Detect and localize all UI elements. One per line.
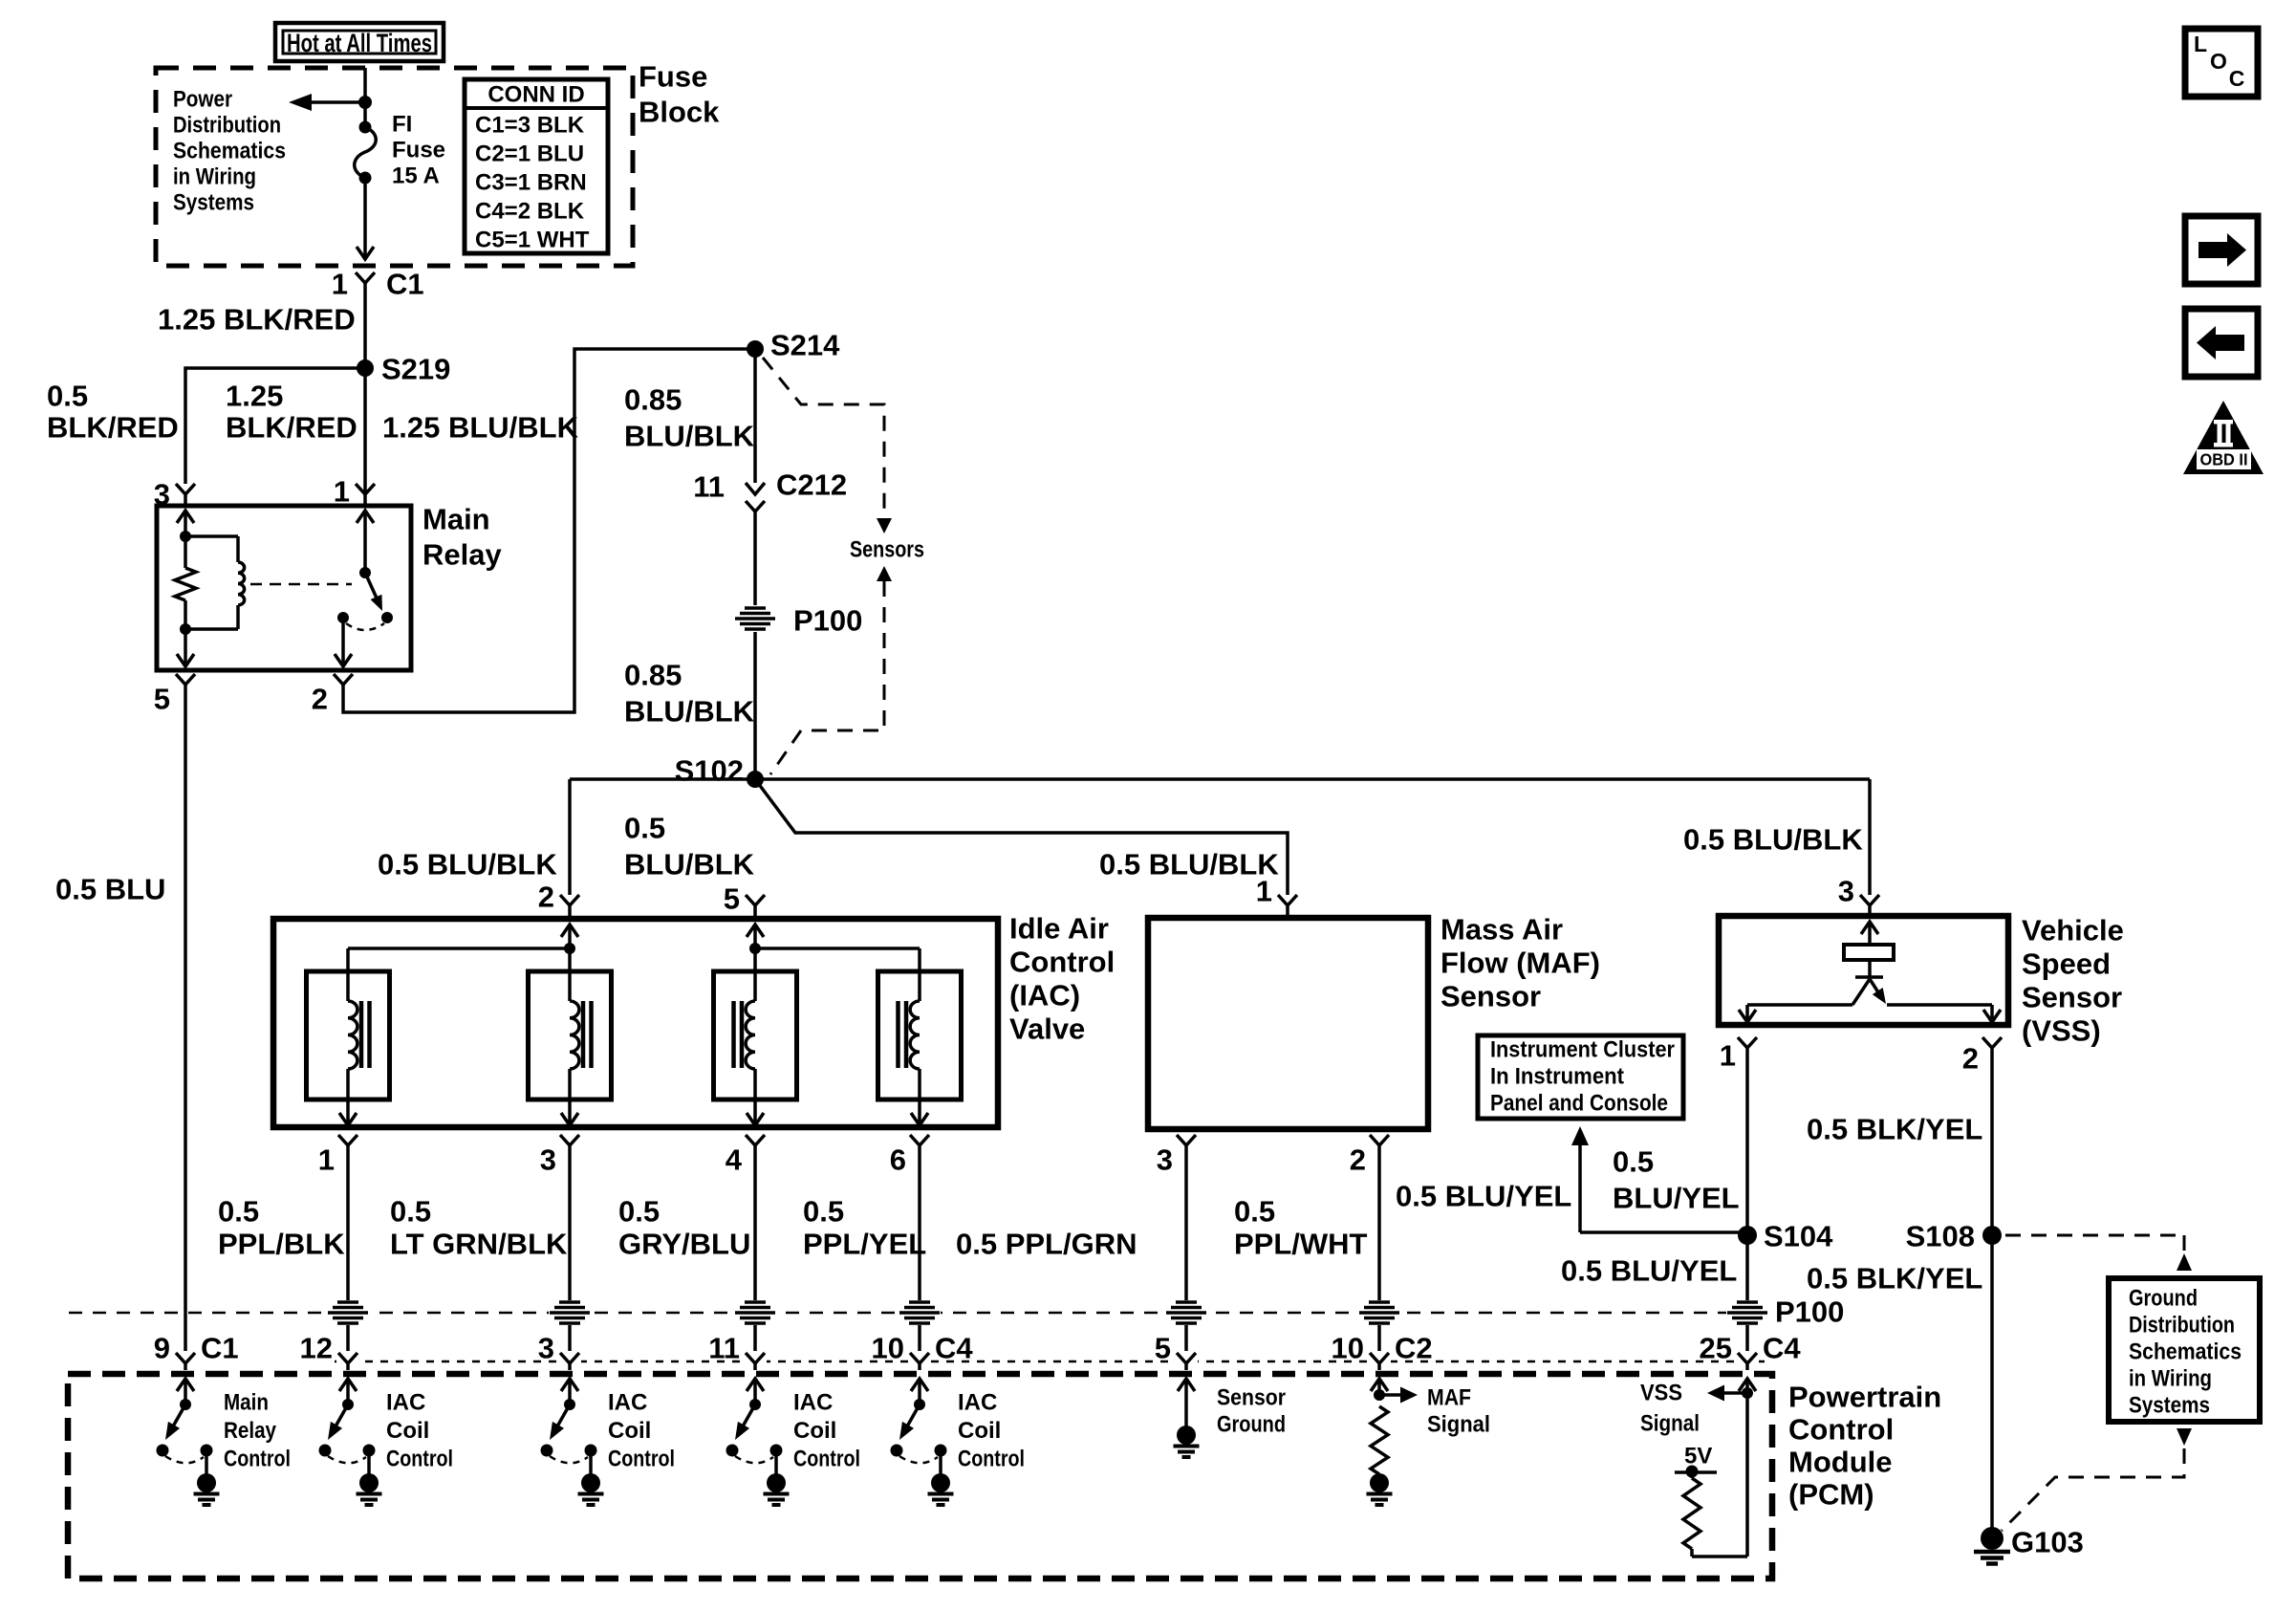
connector MAF pin 2 xyxy=(1350,1135,1389,1177)
connector PCM pin 10 C4 xyxy=(872,1332,974,1371)
wire to instrument cluster with arrow xyxy=(1571,1126,1747,1232)
svg-text:1.25 BLK/RED: 1.25 BLK/RED xyxy=(158,303,356,337)
svg-text:PPL/BLK: PPL/BLK xyxy=(218,1228,345,1261)
svg-text:Signal: Signal xyxy=(1640,1411,1700,1437)
PCM connector face dashed line xyxy=(335,1361,1768,1363)
svg-text:S102: S102 xyxy=(675,754,744,788)
svg-text:Coil: Coil xyxy=(793,1418,836,1444)
svg-text:0.5: 0.5 xyxy=(618,1195,660,1229)
svg-text:Sensor: Sensor xyxy=(1217,1385,1286,1411)
IAC valve box xyxy=(273,919,998,1127)
connector PCM pin 5 xyxy=(1155,1332,1198,1371)
connector relay pin 5 xyxy=(154,674,195,716)
connector IAC pin 3 xyxy=(540,1135,579,1177)
connector PCM pin 10 C2 xyxy=(1332,1332,1433,1371)
wire S214 down xyxy=(753,349,757,483)
label Ground Distribution box xyxy=(2109,1278,2260,1422)
connector PCM pin 11 xyxy=(708,1332,767,1371)
svg-text:P100: P100 xyxy=(1775,1295,1844,1329)
connector relay pin 2 xyxy=(312,674,353,716)
connector PCM pin 12 xyxy=(300,1332,359,1371)
wire IAC pin6 to PCM xyxy=(918,1145,921,1355)
svg-text:0.5 BLU: 0.5 BLU xyxy=(55,873,165,906)
svg-text:C: C xyxy=(2229,66,2245,91)
connector MAF pin 1 xyxy=(1256,875,1297,919)
svg-text:2: 2 xyxy=(312,683,328,716)
pass-through grommet x=364 xyxy=(327,1300,369,1325)
PCM sensor ground xyxy=(1174,1379,1287,1457)
svg-text:Relay: Relay xyxy=(224,1418,277,1444)
svg-text:BLK/RED: BLK/RED xyxy=(47,411,179,445)
svg-text:3: 3 xyxy=(1157,1143,1173,1177)
svg-text:Ground: Ground xyxy=(1217,1412,1286,1438)
svg-text:C4: C4 xyxy=(935,1332,973,1365)
svg-text:Sensor: Sensor xyxy=(2022,981,2122,1014)
svg-text:1: 1 xyxy=(1720,1039,1736,1073)
svg-text:Vehicle: Vehicle xyxy=(2022,914,2124,947)
svg-text:IAC: IAC xyxy=(608,1390,647,1416)
svg-text:BLU/BLK: BLU/BLK xyxy=(624,848,755,882)
wire S219 branch left xyxy=(185,368,365,484)
svg-text:BLU/BLK: BLU/BLK xyxy=(624,695,755,729)
connector IAC pin 1 xyxy=(318,1135,357,1177)
svg-text:5: 5 xyxy=(154,683,170,716)
svg-text:5: 5 xyxy=(1155,1332,1171,1365)
IAC coil winding 3 xyxy=(714,948,797,1125)
svg-text:0.5: 0.5 xyxy=(803,1195,844,1229)
svg-text:0.5 BLK/YEL: 0.5 BLK/YEL xyxy=(1807,1262,1982,1295)
pass-through grommet x=1443 xyxy=(1358,1300,1400,1325)
PCM driver switch at x=596 xyxy=(541,1379,604,1505)
connector C212 pin 11 xyxy=(693,468,847,606)
svg-text:5: 5 xyxy=(724,882,740,916)
svg-text:S219: S219 xyxy=(381,353,450,386)
svg-text:0.5: 0.5 xyxy=(1613,1145,1654,1179)
svg-text:in Wiring: in Wiring xyxy=(173,164,256,190)
wire MAF pin3 to PCM xyxy=(1184,1145,1188,1355)
svg-text:Panel and Console: Panel and Console xyxy=(1490,1091,1668,1117)
svg-text:Signal: Signal xyxy=(1427,1412,1490,1438)
connector MAF pin 3 xyxy=(1157,1135,1196,1177)
connector IAC pin 6 xyxy=(890,1135,929,1177)
wire IAC pin1 to PCM xyxy=(346,1145,350,1355)
svg-text:Main: Main xyxy=(224,1390,269,1416)
svg-text:Flow (MAF): Flow (MAF) xyxy=(1440,947,1600,980)
svg-text:IAC: IAC xyxy=(793,1390,833,1416)
wire MAF pin2 to PCM xyxy=(1377,1145,1381,1355)
svg-text:Systems: Systems xyxy=(2129,1393,2210,1419)
svg-text:C2: C2 xyxy=(1395,1332,1433,1365)
svg-text:In Instrument: In Instrument xyxy=(1490,1064,1624,1090)
splice S104 xyxy=(1738,1220,1833,1253)
svg-text:C212: C212 xyxy=(776,468,847,502)
svg-text:15 A: 15 A xyxy=(392,163,440,189)
icon OBD II xyxy=(2183,401,2264,474)
svg-text:25: 25 xyxy=(1700,1332,1732,1365)
svg-text:C1: C1 xyxy=(386,268,424,301)
svg-text:(PCM): (PCM) xyxy=(1788,1478,1874,1512)
svg-text:O: O xyxy=(2210,49,2227,74)
connector IAC pin 4 xyxy=(726,1135,765,1177)
svg-text:S214: S214 xyxy=(770,329,840,362)
PCM dashed box xyxy=(68,1374,1772,1578)
PCM driver switch at x=364 xyxy=(319,1379,382,1505)
svg-text:C1=3 BLK: C1=3 BLK xyxy=(475,113,585,139)
svg-text:C5=1 WHT: C5=1 WHT xyxy=(475,228,590,253)
IAC coil winding 2 xyxy=(529,948,612,1125)
svg-text:Mass Air: Mass Air xyxy=(1440,913,1563,947)
pass-through P100 xyxy=(735,604,862,638)
svg-text:BLU/YEL: BLU/YEL xyxy=(1613,1182,1740,1215)
wire branch to MAF pin 1 xyxy=(755,779,1288,895)
label 0.5 BLU/BLK xyxy=(624,812,755,882)
connector PCM pin 25 C4 xyxy=(1700,1332,1802,1371)
connector C1 pin 1 xyxy=(332,268,424,301)
label IAC Coil Control xyxy=(793,1390,860,1472)
svg-text:0.5 BLU/YEL: 0.5 BLU/YEL xyxy=(1561,1254,1737,1288)
svg-text:GRY/BLU: GRY/BLU xyxy=(618,1228,750,1261)
svg-text:11: 11 xyxy=(708,1332,740,1365)
svg-text:Sensors: Sensors xyxy=(850,537,924,563)
IAC coil winding 4 xyxy=(878,948,962,1125)
ground G103 xyxy=(1974,1526,2084,1564)
svg-text:11: 11 xyxy=(693,470,725,504)
label Hot at All Times xyxy=(275,23,444,61)
connector IAC pin 2 xyxy=(538,881,579,920)
label 0.85 BLU/BLK xyxy=(624,659,755,729)
svg-text:Distribution: Distribution xyxy=(173,113,281,139)
svg-text:1: 1 xyxy=(332,268,348,301)
wire P100 to S102 xyxy=(753,632,757,779)
relay coil circuit xyxy=(175,511,245,666)
wire branch to IAC pin 2 xyxy=(568,779,572,895)
arrow to power distribution xyxy=(289,94,365,111)
svg-text:Sensor: Sensor xyxy=(1440,980,1541,1013)
svg-text:C2=1 BLU: C2=1 BLU xyxy=(475,142,584,167)
relay actuation dashed link xyxy=(250,583,352,586)
label Mass Air Flow (MAF) Sensor xyxy=(1440,913,1600,1013)
svg-text:1.25 BLU/BLK: 1.25 BLU/BLK xyxy=(382,411,579,445)
svg-text:C3=1 BRN: C3=1 BRN xyxy=(475,170,587,196)
svg-text:Coil: Coil xyxy=(386,1418,429,1444)
svg-text:2: 2 xyxy=(1962,1042,1979,1076)
label FI Fuse 15A xyxy=(392,112,445,189)
wire IAC pin3 to PCM xyxy=(568,1145,572,1355)
PCM MAF signal input xyxy=(1367,1379,1491,1505)
svg-text:LT GRN/BLK: LT GRN/BLK xyxy=(390,1228,568,1261)
splice S102 xyxy=(675,754,764,789)
wire VSS pin2 to G103 0.5 BLK/YEL xyxy=(1990,1048,1994,1536)
wire fuse to C1 xyxy=(363,178,367,256)
svg-text:1: 1 xyxy=(334,475,350,509)
label 0.5 PPL/YEL xyxy=(803,1195,926,1261)
svg-text:Relay: Relay xyxy=(422,538,502,572)
connector IAC pin 5 xyxy=(724,882,765,920)
label Main Relay Control xyxy=(224,1390,291,1472)
svg-text:0.5 PPL/GRN: 0.5 PPL/GRN xyxy=(956,1228,1137,1261)
svg-text:Hot at All Times: Hot at All Times xyxy=(287,29,432,57)
svg-text:Distribution: Distribution xyxy=(2129,1313,2235,1339)
dashed link Sensors to S102 xyxy=(770,566,892,774)
PCM driver switch at x=194 xyxy=(157,1379,220,1505)
svg-text:3: 3 xyxy=(1838,875,1854,908)
wire relay pin5 to PCM 0.5 BLU xyxy=(184,685,187,1355)
wire branch to VSS pin 3 xyxy=(1868,779,1872,895)
svg-text:0.5: 0.5 xyxy=(47,380,88,413)
label 0.5 BLK/RED xyxy=(47,380,179,445)
svg-text:G103: G103 xyxy=(2011,1526,2084,1559)
pass-through grommet x=596 xyxy=(549,1300,591,1325)
wire hot feed into fuse xyxy=(363,68,367,125)
label Idle Air Control (IAC) Valve xyxy=(1009,912,1115,1046)
splice S214 xyxy=(747,329,840,362)
svg-text:0.5 BLU/YEL: 0.5 BLU/YEL xyxy=(1396,1180,1571,1213)
svg-text:5V: 5V xyxy=(1684,1444,1712,1469)
svg-text:CONN ID: CONN ID xyxy=(487,82,584,108)
wire relay pin2 to S214 xyxy=(343,349,755,712)
svg-text:S104: S104 xyxy=(1764,1220,1833,1253)
PCM driver switch at x=962 xyxy=(891,1379,954,1505)
bulkhead dashed line xyxy=(69,1312,1726,1315)
label Powertrain Control Module (PCM) xyxy=(1788,1381,1941,1512)
PCM VSS signal input xyxy=(1640,1379,1756,1557)
svg-text:12: 12 xyxy=(300,1332,333,1365)
svg-text:Schematics: Schematics xyxy=(2129,1339,2242,1365)
icon arrow left xyxy=(2185,309,2258,377)
svg-text:Block: Block xyxy=(639,96,720,129)
svg-text:1: 1 xyxy=(1256,875,1272,908)
svg-text:Idle Air: Idle Air xyxy=(1009,912,1109,946)
svg-text:Control: Control xyxy=(386,1447,453,1472)
label IAC Coil Control xyxy=(958,1390,1025,1472)
splice S219 xyxy=(357,353,450,386)
label Instrument Cluster box xyxy=(1478,1035,1683,1119)
svg-text:0.5 BLU/BLK: 0.5 BLU/BLK xyxy=(1099,848,1279,882)
connector VSS pin 2 xyxy=(1962,1037,2002,1076)
svg-text:Main: Main xyxy=(422,503,490,536)
svg-text:Systems: Systems xyxy=(173,190,254,216)
svg-text:0.5: 0.5 xyxy=(390,1195,431,1229)
label IAC Coil Control xyxy=(608,1390,675,1472)
svg-text:0.85: 0.85 xyxy=(624,659,682,692)
wire S102 distribution bus xyxy=(570,777,1870,781)
label 1.25 BLK/RED xyxy=(226,380,357,445)
svg-text:Control: Control xyxy=(1788,1413,1894,1447)
svg-text:0.85: 0.85 xyxy=(624,383,682,417)
label IAC Coil Control xyxy=(386,1390,453,1472)
label Fuse Block xyxy=(639,60,720,129)
pass-through grommet x=1241 xyxy=(1165,1300,1207,1325)
note Power Distribution Schematics in Wiring Systems xyxy=(173,87,286,216)
label 0.5 PPL/WHT xyxy=(1234,1195,1368,1261)
svg-text:3: 3 xyxy=(538,1332,554,1365)
PCM driver switch at x=790 xyxy=(726,1379,790,1505)
svg-text:3: 3 xyxy=(540,1143,556,1177)
svg-text:Powertrain: Powertrain xyxy=(1788,1381,1941,1414)
wire C1 to S219 1.25 BLK/RED xyxy=(363,283,367,494)
svg-text:Control: Control xyxy=(958,1447,1025,1472)
connector VSS pin 1 xyxy=(1720,1037,1757,1073)
label 0.5 PPL/BLK xyxy=(218,1195,345,1261)
IAC internal feed wires xyxy=(348,925,920,954)
relay box xyxy=(157,506,411,670)
svg-text:Fuse: Fuse xyxy=(639,60,707,94)
svg-text:0.5 BLU/BLK: 0.5 BLU/BLK xyxy=(1683,823,1863,857)
svg-text:4: 4 xyxy=(726,1143,743,1177)
svg-text:Control: Control xyxy=(793,1447,860,1472)
CONN ID table xyxy=(465,79,608,253)
svg-text:VSS: VSS xyxy=(1640,1381,1682,1406)
svg-text:2: 2 xyxy=(1350,1143,1366,1177)
svg-text:0.5: 0.5 xyxy=(218,1195,259,1229)
svg-text:Module: Module xyxy=(1788,1446,1893,1479)
svg-text:Valve: Valve xyxy=(1009,1012,1085,1046)
svg-text:C1: C1 xyxy=(201,1332,239,1365)
fuse FI 15A xyxy=(355,121,377,185)
VSS box xyxy=(1719,916,2008,1025)
svg-text:S108: S108 xyxy=(1906,1220,1975,1253)
connector relay pin 1 xyxy=(334,475,375,509)
svg-text:Coil: Coil xyxy=(608,1418,651,1444)
svg-text:IAC: IAC xyxy=(386,1390,425,1416)
svg-text:Power: Power xyxy=(173,87,232,113)
label Main Relay xyxy=(422,503,502,572)
wire IAC pin4 to PCM xyxy=(753,1145,757,1355)
dashed link ground distribution to G103 xyxy=(2002,1428,2192,1531)
label 0.85 BLU/BLK xyxy=(624,383,755,453)
IAC coil winding 1 xyxy=(307,948,390,1125)
fuse block dashed box xyxy=(156,68,633,266)
label Vehicle Speed Sensor (VSS) xyxy=(2022,914,2124,1048)
svg-text:Schematics: Schematics xyxy=(173,139,286,164)
VSS pickup symbol xyxy=(1739,922,2001,1022)
node feed junction xyxy=(358,96,372,109)
svg-text:C4: C4 xyxy=(1763,1332,1801,1365)
svg-text:Ground: Ground xyxy=(2129,1286,2198,1312)
svg-text:6: 6 xyxy=(890,1143,906,1177)
svg-text:10: 10 xyxy=(872,1332,904,1365)
svg-text:Speed: Speed xyxy=(2022,947,2111,981)
connector PCM pin 3 xyxy=(538,1332,581,1371)
pass-through grommet x=962 xyxy=(899,1300,941,1325)
svg-text:1.25: 1.25 xyxy=(226,380,283,413)
svg-text:in Wiring: in Wiring xyxy=(2129,1366,2212,1392)
svg-text:P100: P100 xyxy=(793,604,862,638)
svg-text:Control: Control xyxy=(224,1447,291,1472)
svg-text:0.5 BLK/YEL: 0.5 BLK/YEL xyxy=(1807,1113,1982,1146)
svg-text:(VSS): (VSS) xyxy=(2022,1014,2101,1048)
svg-text:0.5: 0.5 xyxy=(1234,1195,1275,1229)
svg-text:1: 1 xyxy=(318,1143,335,1177)
svg-text:Fuse: Fuse xyxy=(392,138,445,163)
dashed link S214 to Sensors xyxy=(763,358,892,533)
svg-text:MAF: MAF xyxy=(1427,1385,1471,1411)
MAF sensor box xyxy=(1148,918,1428,1129)
svg-text:PPL/YEL: PPL/YEL xyxy=(803,1228,926,1261)
svg-text:Control: Control xyxy=(1009,946,1115,979)
icon LOC xyxy=(2185,29,2258,97)
pass-through grommet x=790 xyxy=(734,1300,776,1325)
svg-text:0.5 BLU/BLK: 0.5 BLU/BLK xyxy=(378,848,557,882)
connector VSS pin 3 xyxy=(1838,875,1879,917)
relay switch xyxy=(335,511,393,666)
icon arrow right xyxy=(2185,216,2258,284)
svg-text:(IAC): (IAC) xyxy=(1009,979,1080,1012)
svg-text:Control: Control xyxy=(608,1447,675,1472)
dashed link S108 to ground distribution xyxy=(2005,1235,2192,1271)
label 0.5 GRY/BLU xyxy=(618,1195,750,1261)
connector relay pin 3 xyxy=(154,478,195,512)
svg-text:PPL/WHT: PPL/WHT xyxy=(1234,1228,1368,1261)
connector PCM pin 9 C1 xyxy=(154,1332,239,1371)
svg-text:C4=2 BLK: C4=2 BLK xyxy=(475,199,585,225)
wire VSS pin1 to PCM 0.5 BLU/YEL xyxy=(1745,1048,1749,1355)
svg-text:OBD II: OBD II xyxy=(2200,450,2248,469)
label 0.5 LT GRN/BLK xyxy=(390,1195,568,1261)
svg-text:10: 10 xyxy=(1332,1332,1364,1365)
svg-text:9: 9 xyxy=(154,1332,170,1365)
splice S108 xyxy=(1906,1220,2002,1253)
svg-text:BLU/BLK: BLU/BLK xyxy=(624,420,755,453)
svg-text:0.5: 0.5 xyxy=(624,812,665,845)
svg-text:Coil: Coil xyxy=(958,1418,1001,1444)
svg-text:IAC: IAC xyxy=(958,1390,997,1416)
pass-through grommet x=1828 xyxy=(1726,1300,1768,1325)
svg-text:Instrument Cluster: Instrument Cluster xyxy=(1490,1037,1675,1063)
svg-text:2: 2 xyxy=(538,881,554,914)
svg-text:FI: FI xyxy=(392,112,412,138)
svg-text:L: L xyxy=(2194,32,2207,56)
label 0.5 BLU/YEL xyxy=(1613,1145,1740,1215)
svg-text:BLK/RED: BLK/RED xyxy=(226,411,357,445)
